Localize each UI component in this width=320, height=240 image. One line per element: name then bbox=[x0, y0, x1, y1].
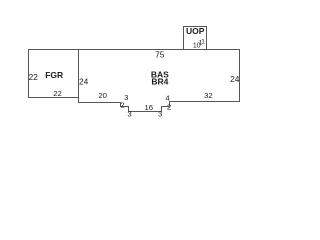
svg-text:3: 3 bbox=[158, 110, 162, 119]
wire step down left bbox=[120, 102, 122, 107]
wire bottom segment 16 bbox=[129, 111, 163, 113]
svg-text:4: 4 bbox=[165, 93, 170, 102]
svg-text:FGR: FGR bbox=[45, 70, 63, 80]
svg-text:22: 22 bbox=[53, 89, 62, 98]
porch UOP right edge bbox=[206, 26, 208, 49]
svg-text:20: 20 bbox=[98, 91, 107, 100]
svg-text:22: 22 bbox=[29, 72, 39, 82]
wire step down left 2 bbox=[128, 106, 130, 112]
wire step up right 4 bbox=[169, 101, 171, 107]
svg-text:1: 1 bbox=[201, 38, 205, 45]
wire step horizontal 2 bbox=[162, 106, 171, 108]
wire right edge bbox=[239, 49, 241, 102]
wire top outline bbox=[28, 49, 240, 51]
svg-text:32: 32 bbox=[204, 91, 213, 100]
svg-text:75: 75 bbox=[155, 50, 165, 60]
wire FGR/BAS divider bbox=[78, 49, 80, 103]
svg-text:24: 24 bbox=[230, 74, 240, 84]
wire bottom segment 20 bbox=[78, 102, 121, 104]
wire step up right bbox=[161, 106, 163, 112]
porch UOP left edge bbox=[183, 26, 185, 49]
wire left edge FGR bbox=[28, 49, 30, 98]
wire step horizontal 3 bbox=[121, 106, 130, 108]
svg-text:24: 24 bbox=[79, 76, 89, 86]
svg-text:UOP: UOP bbox=[186, 26, 205, 36]
svg-text:3: 3 bbox=[124, 93, 128, 102]
svg-text:2: 2 bbox=[167, 103, 171, 112]
svg-text:2: 2 bbox=[120, 100, 124, 109]
wire FGR bottom bbox=[28, 97, 79, 99]
wire bottom segment 32 bbox=[170, 101, 241, 103]
svg-text:3: 3 bbox=[127, 109, 131, 118]
svg-text:BR4: BR4 bbox=[151, 77, 168, 87]
porch UOP top edge bbox=[183, 26, 207, 28]
svg-text:16: 16 bbox=[145, 103, 154, 112]
